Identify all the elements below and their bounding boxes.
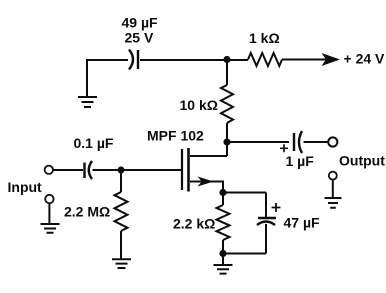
svg-text:1 µF: 1 µF bbox=[286, 153, 315, 169]
svg-text:25 V: 25 V bbox=[125, 30, 154, 46]
svg-text:1 kΩ: 1 kΩ bbox=[249, 30, 280, 46]
svg-text:Input: Input bbox=[8, 179, 43, 195]
svg-text:47 µF: 47 µF bbox=[284, 215, 321, 231]
svg-text:Output: Output bbox=[339, 153, 385, 169]
svg-text:2.2 MΩ: 2.2 MΩ bbox=[64, 204, 110, 220]
svg-text:+ 24 V: + 24 V bbox=[344, 51, 386, 67]
svg-text:10 kΩ: 10 kΩ bbox=[180, 97, 218, 113]
svg-text:2.2 kΩ: 2.2 kΩ bbox=[173, 216, 215, 232]
svg-text:0.1 µF: 0.1 µF bbox=[74, 135, 114, 151]
svg-text:MPF 102: MPF 102 bbox=[147, 128, 204, 144]
svg-text:49 µF: 49 µF bbox=[122, 15, 159, 31]
